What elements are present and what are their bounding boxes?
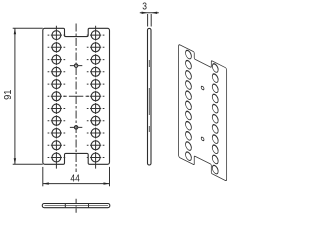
hole L6 <box>48 91 66 102</box>
arrow left <box>43 182 49 184</box>
arrow right <box>104 182 110 184</box>
hole L5 <box>48 79 66 90</box>
arrow down <box>14 158 16 164</box>
bottom view notch tick right <box>88 204 90 208</box>
hole R3 <box>87 54 105 65</box>
iso hole R10 <box>211 152 219 166</box>
dimension 44 line <box>43 183 110 185</box>
iso hole R5 <box>211 102 219 116</box>
hole L7 <box>48 103 66 114</box>
iso hole L1 <box>184 47 192 61</box>
hole R10 <box>87 140 105 151</box>
iso small hole B <box>201 137 204 142</box>
iso hole L6 <box>184 98 192 112</box>
isometric view <box>179 44 227 181</box>
iso hole R1 <box>211 61 219 75</box>
hole L2 <box>48 42 66 53</box>
small hole A <box>70 64 82 67</box>
bottom view notch tick left <box>64 204 66 208</box>
hole L8 <box>48 115 66 126</box>
iso plate outline <box>179 44 227 181</box>
arrow left-pointing <box>151 12 157 14</box>
iso hole L11 <box>184 149 192 163</box>
iso small hole A <box>201 86 204 91</box>
dimension 3 line <box>140 12 159 14</box>
iso hole R2 <box>211 71 219 85</box>
middle row centerline <box>63 95 89 97</box>
hole L1 <box>48 30 66 41</box>
iso hole R9 <box>211 142 219 156</box>
hole R2 <box>87 42 105 53</box>
hole R11 <box>87 152 105 163</box>
small hole B <box>70 126 82 129</box>
iso hole L2 <box>184 58 192 72</box>
iso hole R3 <box>211 81 219 95</box>
iso hole L4 <box>184 78 192 92</box>
hole L9 <box>48 128 66 139</box>
iso hole L3 <box>184 68 192 82</box>
hole L3 <box>48 54 66 65</box>
dimension 91 line <box>14 28 16 164</box>
arrow up <box>14 28 16 34</box>
iso hole L9 <box>184 129 192 143</box>
hole R6 <box>87 91 105 102</box>
side view hidden marks <box>148 60 150 132</box>
iso hole L8 <box>184 119 192 133</box>
iso hole L10 <box>184 139 192 153</box>
svg-text:3: 3 <box>142 2 147 13</box>
hole R9 <box>87 128 105 139</box>
hole R1 <box>87 30 105 41</box>
dimension 91 extension line bottom <box>13 163 43 165</box>
hole R7 <box>87 103 105 114</box>
bottom view centerline <box>75 199 77 213</box>
dimension 44 extension line left <box>42 167 44 186</box>
iso hole R11 <box>211 162 219 176</box>
svg-text:44: 44 <box>70 173 80 184</box>
dimension 91 extension line top <box>13 27 43 29</box>
iso hole R8 <box>211 132 219 146</box>
side view strip outline <box>148 28 152 165</box>
bottom view mid line <box>45 205 109 207</box>
iso hole L5 <box>184 88 192 102</box>
hole R8 <box>87 115 105 126</box>
iso hole R4 <box>211 91 219 105</box>
hole R4 <box>87 66 105 77</box>
vertical centerline <box>75 24 77 173</box>
arrow right-pointing <box>142 12 148 14</box>
bottom view strip outline <box>42 204 110 208</box>
row11 centerline overruns <box>56 163 95 169</box>
hole L11 <box>48 152 66 163</box>
svg-text:91: 91 <box>3 89 14 100</box>
dimension 3 extension lines <box>148 14 152 27</box>
dimension 44 extension line right <box>109 167 111 186</box>
iso hole R7 <box>211 122 219 136</box>
row1 centerline overruns <box>56 26 95 30</box>
iso hole R6 <box>211 112 219 126</box>
hole L10 <box>48 140 66 151</box>
iso hole L7 <box>184 108 192 122</box>
hole R5 <box>87 79 105 90</box>
front view plate outline <box>43 28 110 164</box>
hole L4 <box>48 66 66 77</box>
